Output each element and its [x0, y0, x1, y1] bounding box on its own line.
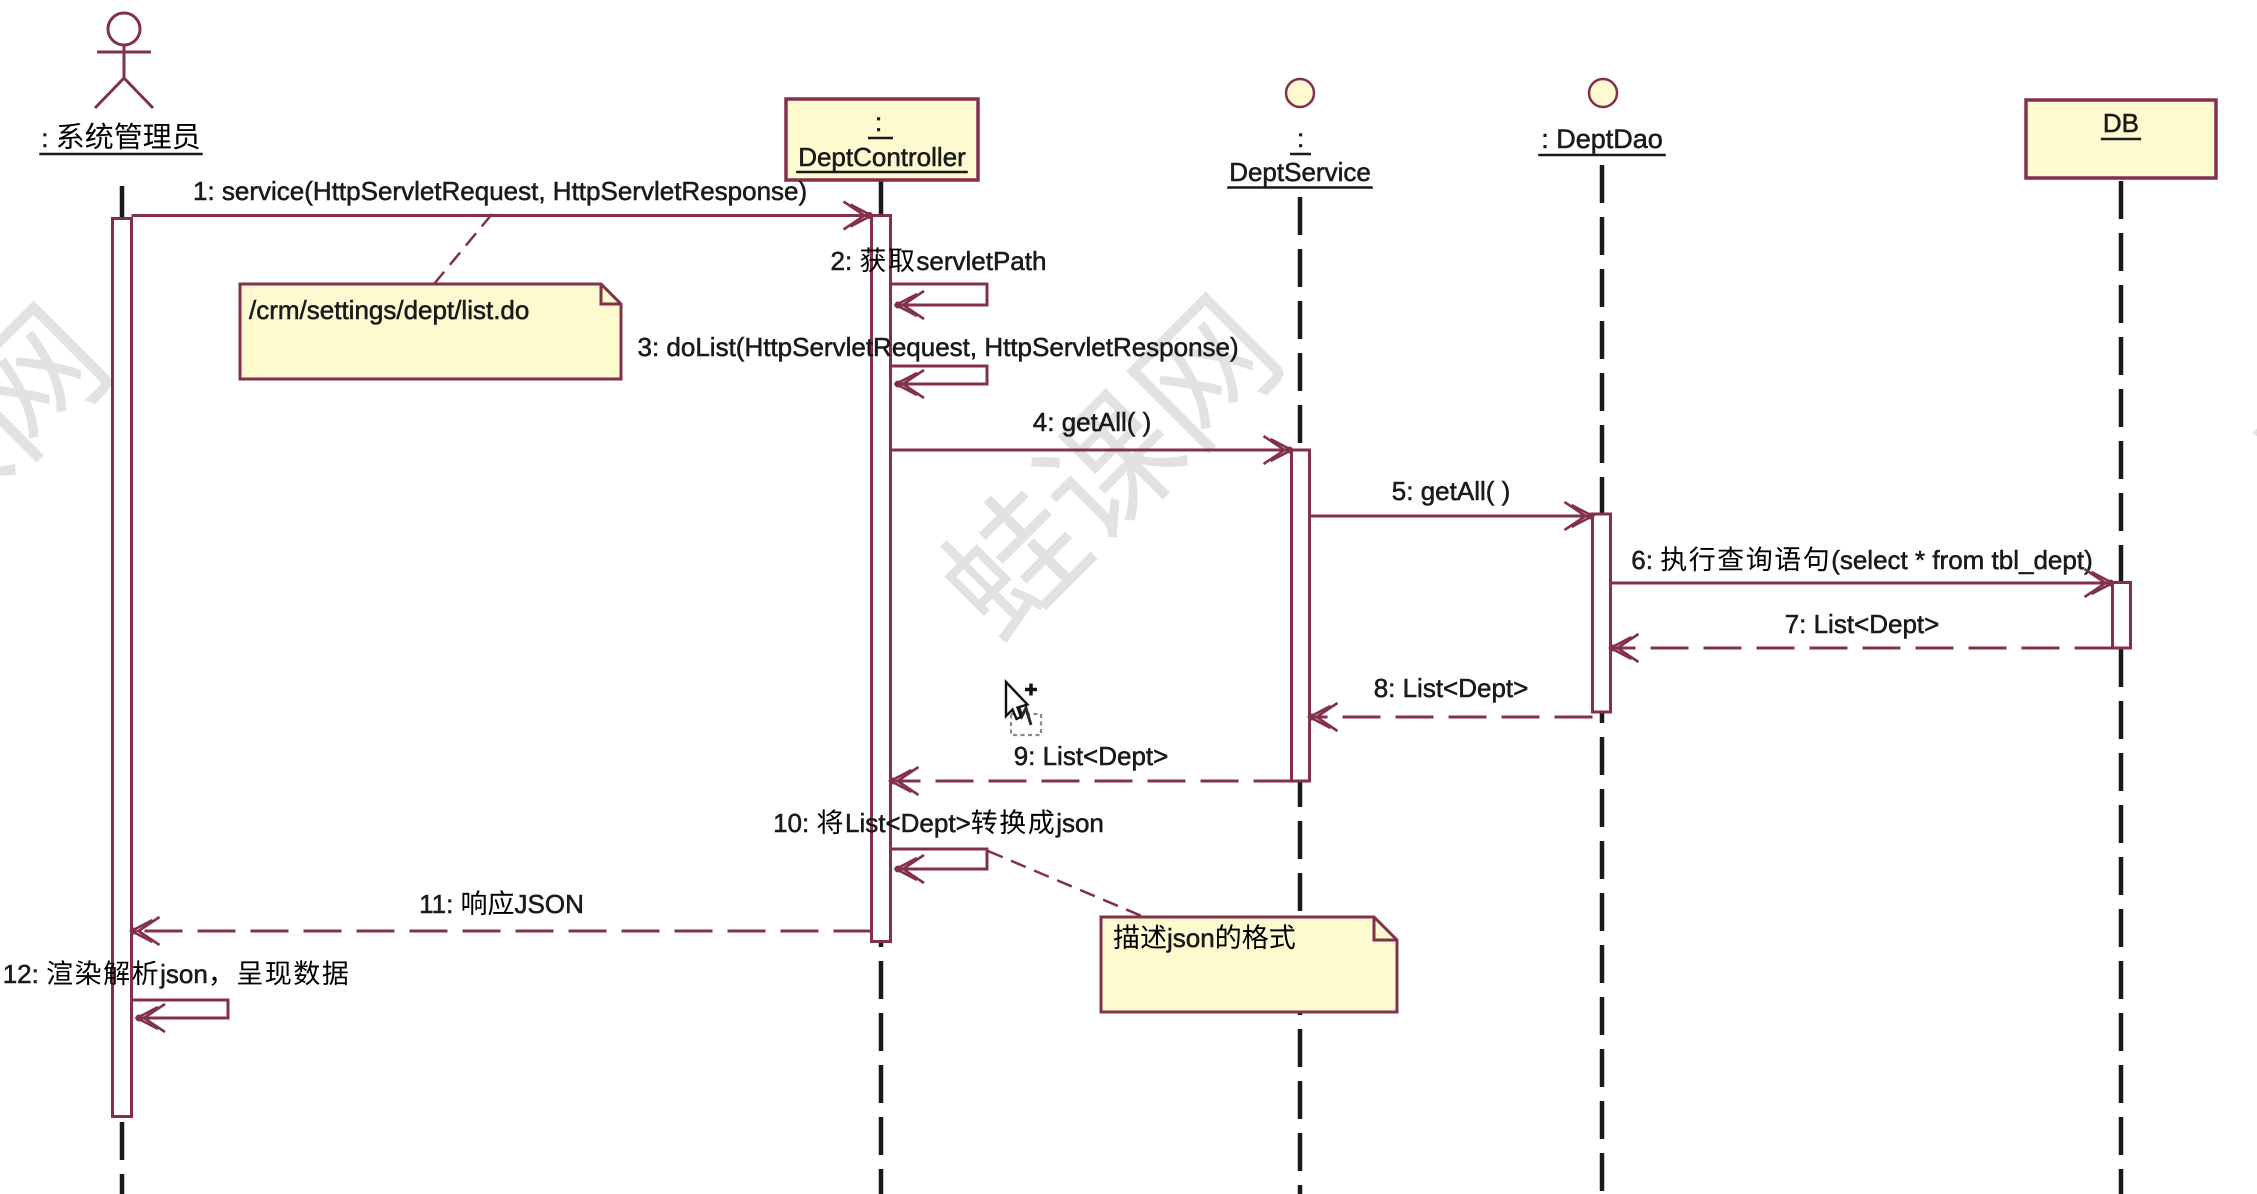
svg-text:12:: 12:	[3, 959, 39, 989]
note anchor 1	[434, 214, 492, 284]
svg-text:: DeptDao: : DeptDao	[1541, 124, 1663, 154]
svg-text:(select * from tbl_dept): (select * from tbl_dept)	[1831, 545, 2093, 575]
svg-text:9: List<Dept>: 9: List<Dept>	[1014, 741, 1169, 771]
svg-text:json: json	[159, 959, 208, 989]
svg-text::: :	[875, 107, 882, 137]
note anchor 2	[988, 851, 1144, 917]
lifeline DeptController	[879, 181, 884, 1194]
object box DB	[2026, 100, 2216, 178]
svg-text:3: doList(HttpServletRequest,: 3: doList(HttpServletRequest, HttpServle…	[638, 332, 1239, 362]
object DeptService circle	[1286, 79, 1314, 107]
activation DeptDao	[1593, 514, 1611, 712]
note 描述json的格式	[1101, 917, 1397, 1012]
svg-text:11:: 11:	[419, 889, 453, 919]
watermark tile right	[2237, 172, 2257, 537]
svg-text:List<Dept>: List<Dept>	[845, 808, 971, 838]
svg-text:10:: 10:	[773, 808, 809, 838]
svg-text:8: List<Dept>: 8: List<Dept>	[1374, 673, 1529, 703]
svg-text:JSON: JSON	[515, 889, 584, 919]
note /crm/settings/dept/list.do	[240, 284, 621, 379]
svg-text:DB: DB	[2103, 108, 2139, 138]
svg-text::: :	[41, 123, 48, 153]
activation DeptService	[1292, 450, 1310, 781]
svg-text:4: getAll( ): 4: getAll( )	[1033, 407, 1152, 437]
svg-text::: :	[1297, 123, 1304, 153]
svg-text:5: getAll( ): 5: getAll( )	[1392, 476, 1511, 506]
svg-text:DeptService: DeptService	[1229, 157, 1371, 187]
svg-text:json: json	[1055, 808, 1104, 838]
activation actor	[113, 219, 132, 1117]
activation DeptController	[872, 216, 891, 942]
lifeline DeptDao	[1600, 165, 1605, 1194]
svg-text:6:: 6:	[1631, 545, 1653, 575]
watermark tile center	[924, 286, 1289, 651]
svg-text:DeptController: DeptController	[798, 142, 966, 172]
activation DB	[2113, 583, 2131, 649]
actor 系统管理员 stick figure	[95, 13, 153, 108]
svg-text:servletPath: servletPath	[916, 246, 1046, 276]
lifeline DB	[2119, 181, 2124, 1194]
object box DeptController	[786, 99, 978, 180]
svg-text:7: List<Dept>: 7: List<Dept>	[1785, 609, 1940, 639]
svg-text:/crm/settings/dept/list.do: /crm/settings/dept/list.do	[249, 295, 529, 325]
lifeline actor	[120, 186, 125, 1194]
watermark tile left	[0, 295, 116, 660]
cursor icon	[1006, 682, 1041, 735]
message 1 service()	[132, 214, 872, 217]
svg-text:2:: 2:	[831, 246, 853, 276]
svg-text:json: json	[1166, 923, 1215, 953]
lifeline DeptService	[1298, 197, 1303, 1194]
object DeptDao circle	[1589, 79, 1617, 107]
svg-text:1: service(HttpServletRequest,: 1: service(HttpServletRequest, HttpServl…	[193, 176, 807, 206]
